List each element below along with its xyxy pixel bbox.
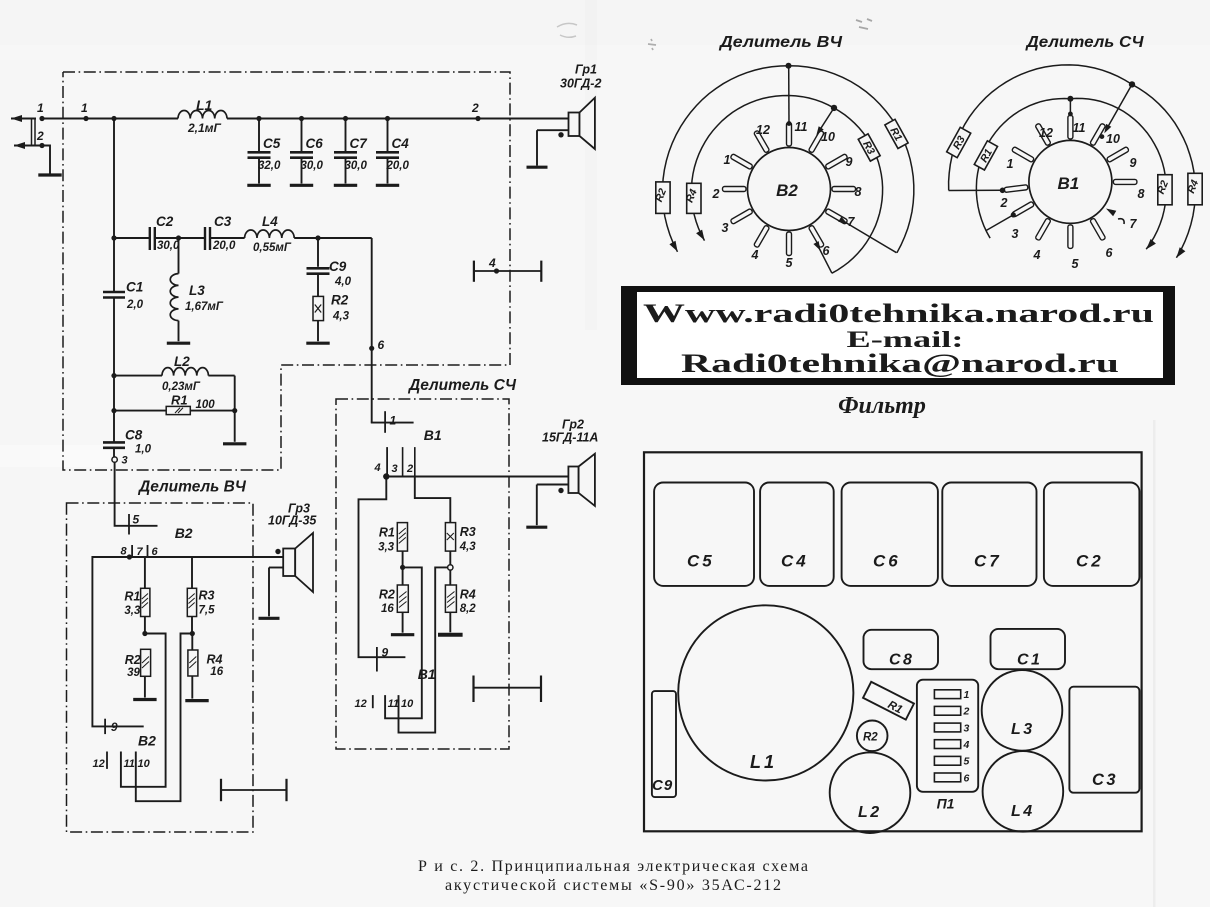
svg-text:B2: B2 — [175, 525, 193, 541]
PCB resistor R2 — [857, 721, 888, 752]
input connector double bars — [31, 119, 33, 147]
tick terminal 12 (B1) — [372, 695, 374, 708]
arrow at pin 7 position (B1) — [1106, 209, 1116, 217]
resistor R4 (B1 diagram) — [1188, 173, 1202, 205]
svg-text:10ГД-35: 10ГД-35 — [268, 514, 317, 528]
capacitor C7 — [334, 116, 368, 185]
resistor R3 (B1 diagram) — [947, 127, 972, 158]
svg-text:8: 8 — [855, 185, 862, 199]
svg-text:П1: П1 — [937, 796, 955, 812]
switch B1 outer arc — [949, 65, 1196, 258]
svg-text:9: 9 — [382, 646, 389, 660]
svg-text:4: 4 — [1033, 248, 1041, 262]
wire from C9 junction down to node 6 — [371, 238, 373, 423]
svg-text:6: 6 — [964, 772, 970, 784]
svg-text:B2: B2 — [776, 181, 798, 200]
capacitor C3 — [204, 227, 206, 250]
PCB capacitor C3 — [1069, 687, 1139, 793]
open circle under R3 (B1) — [448, 565, 453, 570]
svg-text:L3: L3 — [189, 283, 205, 298]
PCB capacitor C8 — [864, 630, 939, 669]
svg-text:6: 6 — [1106, 246, 1114, 260]
svg-text:Делитель СЧ: Делитель СЧ — [407, 377, 517, 394]
PCB board outline — [644, 452, 1142, 831]
wire from pin 7 (B2) — [844, 222, 897, 253]
faint smudge marks — [557, 23, 577, 37]
capacitor C1 — [103, 291, 125, 294]
terminal 5 tick and label — [128, 514, 130, 535]
wire from pin 2 (B1) — [949, 189, 1002, 191]
resistor R2 4.3 — [306, 274, 349, 344]
wire to speaker Gr2 — [386, 476, 568, 478]
svg-text:R2: R2 — [379, 588, 395, 602]
svg-text:10: 10 — [138, 758, 151, 770]
svg-text:32,0: 32,0 — [258, 160, 281, 172]
svg-text:5: 5 — [133, 513, 140, 527]
resistor R4 8.2 (B1) — [438, 570, 476, 635]
resistor R1 3.3 (B1) — [378, 523, 407, 568]
wire C3 to L4 — [210, 237, 245, 239]
svg-text:7: 7 — [1130, 217, 1138, 231]
resistor R2 39 (B2) — [125, 649, 157, 699]
switch B1 circle — [1029, 140, 1112, 223]
wire: vertical bus — [113, 119, 115, 293]
svg-text:3: 3 — [1012, 227, 1019, 241]
svg-text:L3: L3 — [1011, 721, 1035, 738]
svg-text:C6: C6 — [873, 552, 901, 571]
svg-text:30,0: 30,0 — [301, 160, 324, 172]
svg-text:6: 6 — [378, 338, 385, 352]
svg-text:2,0: 2,0 — [126, 299, 144, 311]
wire R3 node to terminal 10 — [136, 634, 193, 802]
tick terminal 6 — [147, 545, 149, 558]
svg-text:4,3: 4,3 — [332, 311, 350, 323]
wire second row — [114, 237, 149, 239]
svg-text:C5: C5 — [687, 552, 715, 571]
svg-text:0,23мГ: 0,23мГ — [162, 381, 201, 393]
wire inner arc to pin 10 (B2) — [818, 108, 835, 134]
squiggle near label 7 (B1) — [1118, 219, 1124, 224]
resistor R3 4.3 (B1) — [415, 477, 476, 565]
svg-text:L2: L2 — [858, 804, 882, 821]
PCB capacitor C2 — [1044, 483, 1140, 586]
svg-text:R2: R2 — [863, 732, 878, 744]
svg-text:C9: C9 — [652, 777, 673, 794]
svg-text:4: 4 — [374, 462, 381, 474]
resistor R2 16 (B1) — [379, 567, 414, 634]
terminal 1 dot and label — [39, 116, 44, 121]
capacitor C5 — [247, 116, 281, 185]
PCB coil L1 — [678, 605, 853, 780]
switch B2 pin 11 — [787, 123, 792, 147]
svg-text:Р и с. 2. Принципиальная элект: Р и с. 2. Принципиальная электрическая с… — [418, 858, 808, 875]
PCB capacitor C5 — [654, 483, 754, 586]
svg-text:0,55мГ: 0,55мГ — [253, 242, 292, 254]
svg-text:C7: C7 — [974, 552, 1002, 571]
svg-text:5: 5 — [964, 756, 970, 768]
tick terminal 9 — [104, 719, 106, 734]
resistor R4 (B2 diagram) — [687, 183, 701, 213]
resistor R1 100 — [111, 393, 246, 444]
svg-text:7: 7 — [137, 546, 144, 558]
svg-text:2: 2 — [1000, 196, 1008, 210]
svg-text:4: 4 — [963, 739, 970, 751]
resistor R2 (B2 diagram) — [656, 182, 670, 214]
svg-text:2,1мГ: 2,1мГ — [187, 121, 222, 135]
terminal 1 (B1) — [371, 422, 414, 424]
svg-text:39: 39 — [127, 667, 140, 679]
svg-text:R1: R1 — [171, 393, 188, 408]
svg-text:1: 1 — [81, 101, 88, 115]
svg-text:R3: R3 — [460, 525, 476, 539]
PCB resistor R1 — [863, 682, 914, 720]
svg-text:L4: L4 — [262, 214, 278, 229]
svg-text:9: 9 — [1130, 156, 1137, 170]
svg-text:12: 12 — [756, 123, 770, 137]
wire R1 node to terminal 11 — [121, 634, 166, 787]
switch B2 inner arc — [691, 96, 882, 274]
svg-text:R2: R2 — [331, 293, 349, 308]
svg-text:30,0: 30,0 — [345, 160, 368, 172]
svg-text:акустической системы «S-90» 35: акустической системы «S-90» 35АС-212 — [445, 877, 781, 894]
svg-text:Radi0tehnika@narod.ru: Radi0tehnika@narod.ru — [681, 348, 1119, 378]
svg-text:30ГД-2: 30ГД-2 — [560, 77, 601, 91]
svg-text:C1: C1 — [126, 280, 143, 295]
switch B1 inner arc — [976, 98, 1166, 249]
svg-text:12: 12 — [1039, 126, 1053, 140]
switch B1 pin 6 — [1090, 218, 1106, 241]
switch B1 pin 10 — [1090, 123, 1106, 146]
link bar right (B1 box) — [474, 687, 542, 689]
wire L4 to corner — [294, 237, 372, 239]
svg-text:30,0: 30,0 — [157, 240, 180, 252]
svg-text:Делитель СЧ: Делитель СЧ — [1024, 34, 1144, 51]
svg-text:11: 11 — [124, 758, 135, 770]
svg-text:2: 2 — [471, 101, 479, 115]
svg-text:20,0: 20,0 — [212, 240, 236, 252]
switch B2 pin 7 — [825, 208, 848, 224]
resistor R1 (B1 diagram) — [974, 141, 998, 171]
svg-text:8: 8 — [121, 546, 128, 558]
svg-text:Гр2: Гр2 — [562, 418, 584, 432]
wire C8 down — [113, 448, 115, 457]
svg-text:Гр1: Гр1 — [575, 63, 597, 77]
tick terminal 7 — [131, 545, 133, 558]
svg-text:10: 10 — [1106, 132, 1120, 146]
switch B2 pin 2 — [723, 187, 747, 192]
svg-text:L1: L1 — [196, 97, 213, 113]
switch B2 pin 6 — [808, 225, 824, 248]
svg-text:11: 11 — [795, 120, 808, 134]
switch B1 pin 3 — [1012, 201, 1035, 217]
svg-text:2: 2 — [36, 129, 44, 143]
wire R3 node to terminal 10 (B1) — [399, 567, 448, 732]
junction dot main bus — [111, 116, 116, 121]
switch B1 pin 4 — [1035, 218, 1051, 241]
switch B2 pin 1 — [730, 154, 753, 170]
svg-text:2: 2 — [712, 187, 720, 201]
svg-text:5: 5 — [786, 256, 794, 270]
capacitor C9 — [317, 238, 319, 267]
svg-text:3: 3 — [122, 455, 128, 467]
svg-text:1: 1 — [37, 101, 44, 115]
svg-text:2: 2 — [406, 463, 413, 475]
junction dot C9 — [315, 235, 320, 240]
wire R1 node to terminal 11 (B1) — [385, 567, 422, 718]
arrow outer arc end (B1) — [1176, 247, 1185, 258]
resistor R2 (B1 diagram) — [1158, 175, 1172, 205]
switch B1 pin 12 — [1035, 123, 1051, 146]
svg-text:B2: B2 — [138, 733, 156, 749]
svg-text:C8: C8 — [889, 652, 914, 669]
svg-text:11: 11 — [388, 698, 399, 710]
svg-text:3: 3 — [964, 722, 970, 734]
speaker Gr2 15GD-11A — [526, 418, 598, 528]
svg-text:1: 1 — [390, 414, 397, 428]
svg-text:C9: C9 — [329, 259, 347, 274]
switch B2 pin 3 — [730, 208, 753, 224]
wire top junction to pin 11 (B1) — [1069, 99, 1071, 114]
arrow outer arc end (B2) — [669, 241, 677, 252]
svg-text:B1: B1 — [424, 427, 442, 443]
link bar bottom (B2 box) — [221, 789, 287, 791]
resistor R4 16 (B2) — [185, 634, 223, 701]
resistor R1 (B2 diagram) — [884, 119, 908, 149]
PCB switch P1 — [917, 680, 978, 792]
svg-text:12: 12 — [93, 758, 105, 770]
switch B1 pin 11 — [1068, 115, 1073, 139]
switch B2 pin 9 — [825, 154, 848, 170]
switch B1 pin 2 — [1004, 185, 1028, 193]
PCB capacitor C1 — [991, 629, 1066, 669]
capacitor C8 — [103, 441, 125, 444]
PCB capacitor C7 — [942, 483, 1036, 586]
svg-text:9: 9 — [846, 155, 853, 169]
svg-text:16: 16 — [381, 603, 394, 615]
svg-text:C6: C6 — [306, 136, 324, 151]
svg-text:1: 1 — [964, 689, 970, 701]
switch row 8 7 6 wire — [129, 556, 283, 558]
svg-text:1: 1 — [1007, 157, 1014, 171]
PCB coil L3 — [982, 670, 1063, 751]
resistor R3 7.5 (B2) — [187, 557, 215, 634]
svg-text:L1: L1 — [750, 752, 777, 772]
wire terminal2 to ground — [42, 146, 50, 174]
svg-text:Делитель ВЧ: Делитель ВЧ — [137, 479, 247, 496]
terminal 2 dot and label — [39, 143, 44, 148]
inductor L4 — [245, 230, 295, 238]
node 1 dot — [83, 116, 88, 121]
svg-text:R4: R4 — [460, 588, 476, 602]
svg-text:4: 4 — [751, 248, 759, 262]
svg-text:1,0: 1,0 — [135, 444, 152, 456]
svg-text:5: 5 — [1072, 257, 1080, 271]
wire to terminal 9 — [92, 557, 143, 726]
svg-text:15ГД-11А: 15ГД-11А — [542, 431, 598, 445]
speaker Gr3 10GD-35 — [259, 502, 318, 619]
switch B1 pin 5 — [1068, 225, 1073, 249]
PCB capacitor C6 — [842, 483, 938, 586]
svg-text:R2: R2 — [125, 653, 141, 667]
resistor R1 3.3 (B2) — [124, 557, 150, 634]
svg-text:8: 8 — [1138, 187, 1145, 201]
svg-text:4,0: 4,0 — [334, 276, 352, 288]
wire top junction to pin 11 (B2) — [788, 66, 790, 123]
dash-dot box Delitel SCh — [336, 399, 509, 749]
switch B2 outer arc — [663, 66, 914, 253]
wire to terminal 9 (B1) — [359, 477, 406, 658]
speaker Gr1 30GD-2 — [527, 63, 602, 168]
PCB capacitor C9 — [652, 691, 676, 797]
svg-text:L2: L2 — [174, 354, 190, 369]
svg-text:B1: B1 — [418, 666, 436, 682]
svg-text:7,5: 7,5 — [199, 605, 216, 617]
svg-text:1,67мГ: 1,67мГ — [185, 301, 224, 313]
switch B1 pin 1 — [1012, 146, 1035, 162]
switch B1 pin 8 — [1113, 179, 1137, 184]
switch B2 pin 5 — [787, 232, 792, 256]
PCB capacitor C4 — [760, 483, 834, 586]
dash-dot box Delitel VCh — [67, 503, 254, 832]
svg-text:C1: C1 — [1017, 652, 1042, 669]
wire outer arc to pin 10 (B1) — [1106, 84, 1133, 131]
svg-text:Фильтр: Фильтр — [838, 393, 926, 419]
svg-text:C4: C4 — [392, 136, 410, 151]
ground at input — [38, 173, 61, 176]
switch B2 circle — [748, 148, 831, 231]
banner black frame — [621, 286, 1175, 385]
node 3 open circle — [112, 457, 117, 462]
svg-text:100: 100 — [196, 399, 216, 411]
capacitor C2 — [149, 227, 151, 250]
svg-text:2: 2 — [963, 706, 970, 718]
wire: main top line — [42, 118, 178, 120]
arrow inner arc end (B2) — [696, 230, 705, 241]
arrow inner arc end (B1) — [1146, 239, 1156, 249]
switch B2 pin 12 — [754, 130, 770, 153]
inductor L1 — [178, 110, 227, 118]
junction dot B1 — [383, 473, 389, 479]
switch B2 pin 10 — [808, 130, 824, 153]
svg-text:R1: R1 — [124, 590, 140, 604]
node dot C2/L3 — [176, 235, 181, 240]
resistor R3 (B2 diagram) — [857, 134, 880, 162]
junction dot under R1 (B1) — [400, 565, 405, 570]
wire from pin 6 (B2) — [817, 243, 832, 273]
wire node3 to terminal 5 — [115, 462, 158, 526]
input arrow terminal 2 — [14, 145, 42, 147]
svg-text:9: 9 — [111, 720, 118, 734]
svg-text:6: 6 — [152, 546, 159, 558]
svg-text:Делитель ВЧ: Делитель ВЧ — [718, 34, 843, 51]
svg-text:10: 10 — [821, 130, 835, 144]
capacitor C6 — [290, 116, 324, 185]
PCB coil L2 — [830, 752, 911, 833]
svg-text:C5: C5 — [263, 136, 281, 151]
ticks terminals 4 3 2 — [386, 447, 388, 476]
svg-text:Www.radi0tehnika.narod.ru: Www.radi0tehnika.narod.ru — [643, 298, 1154, 328]
terminal 4 link bar — [474, 256, 541, 282]
wire from pin 3 (B1) — [986, 215, 1014, 231]
svg-text:C7: C7 — [350, 136, 369, 151]
capacitor C4 — [376, 116, 410, 185]
switch B2 pin 4 — [754, 225, 770, 248]
svg-text:1: 1 — [724, 153, 731, 167]
node 6 dot — [369, 346, 374, 351]
svg-text:3,3: 3,3 — [124, 605, 141, 617]
svg-text:C4: C4 — [781, 552, 809, 571]
wire after L1 — [227, 118, 569, 120]
svg-text:R1: R1 — [379, 526, 395, 540]
dash-dot boundary: main filter box — [63, 72, 510, 470]
inductor L2 — [111, 354, 234, 411]
svg-text:C8: C8 — [125, 428, 143, 443]
input arrow terminal 1 — [11, 118, 36, 120]
svg-text:20,0: 20,0 — [386, 160, 410, 172]
svg-text:3: 3 — [392, 463, 398, 475]
svg-text:R3: R3 — [199, 589, 215, 603]
node 2 dot — [475, 116, 480, 121]
svg-text:L4: L4 — [1011, 803, 1035, 820]
svg-text:8,2: 8,2 — [460, 603, 477, 615]
svg-text:C2: C2 — [156, 214, 174, 229]
svg-text:B1: B1 — [1058, 174, 1080, 193]
svg-text:12: 12 — [355, 698, 367, 710]
svg-text:4: 4 — [488, 256, 496, 270]
wire C2 to C3 — [155, 237, 205, 239]
svg-text:11: 11 — [1073, 121, 1086, 135]
switch B1 pin 9 — [1106, 146, 1129, 162]
svg-text:3,3: 3,3 — [378, 542, 395, 554]
svg-text:10: 10 — [401, 698, 414, 710]
tick terminal 9 (B1) — [376, 647, 378, 672]
switch B2 pin 8 — [832, 187, 856, 192]
svg-text:3: 3 — [722, 221, 729, 235]
svg-text:16: 16 — [210, 666, 223, 678]
svg-text:4,3: 4,3 — [459, 541, 477, 553]
svg-text:C2: C2 — [1076, 552, 1104, 571]
junction dots under R1 R3 — [142, 631, 147, 636]
svg-text:C3: C3 — [214, 214, 232, 229]
svg-text:C3: C3 — [1092, 771, 1118, 789]
inductor L3 — [167, 238, 224, 343]
tick terminal 12 (B2) — [106, 752, 108, 769]
svg-text:R4: R4 — [207, 653, 223, 667]
PCB coil L4 — [983, 751, 1064, 832]
